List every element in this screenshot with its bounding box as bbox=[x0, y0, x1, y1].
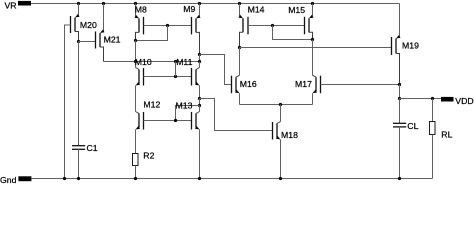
transistor M17 (NMOS, gate right) bbox=[295, 75, 321, 104]
node RL branch bbox=[431, 97, 434, 100]
node gnd-M13 bbox=[198, 177, 201, 180]
node M20 drain / M21 gate / C1 bbox=[77, 40, 80, 43]
wire M13 drain to M12/M13 gate tie bbox=[176, 106, 200, 121]
transistor M14 (PMOS, gate right) bbox=[239, 4, 265, 48]
svg-text:M11: M11 bbox=[176, 57, 192, 67]
svg-text:M19: M19 bbox=[402, 41, 419, 51]
wire M17 gate to output node bbox=[321, 84, 400, 86]
transistor M15 (PMOS, gate left) bbox=[288, 4, 313, 40]
svg-text:M12: M12 bbox=[143, 100, 160, 110]
wire M15 drain down to M17 drain bbox=[312, 40, 314, 76]
wire VR top rail bbox=[31, 3, 400, 5]
node M14-M15 gate tie bbox=[271, 24, 274, 27]
capacitor C1 bbox=[72, 42, 98, 179]
node bus-gate tie M10/M11 bbox=[174, 60, 177, 63]
svg-text:M10: M10 bbox=[135, 57, 152, 67]
svg-text:M9: M9 bbox=[183, 4, 195, 14]
node VDD output bbox=[398, 97, 401, 100]
node M15 drain diode tie bbox=[311, 38, 314, 41]
node bus-M11 bbox=[198, 60, 201, 63]
transistor M16 (NMOS, gate left) bbox=[232, 75, 257, 104]
svg-text:CL: CL bbox=[407, 121, 418, 131]
wire VDD node to pad bbox=[400, 98, 442, 100]
terminal VR pad bbox=[5, 0, 32, 10]
resistor R2 bbox=[133, 151, 155, 179]
transistor M8 (PMOS, gate right) bbox=[135, 4, 148, 41]
wire M20 gate to ground bbox=[65, 25, 71, 179]
svg-text:VDD: VDD bbox=[455, 96, 473, 106]
transistor M21 (PMOS, gate left) bbox=[96, 4, 121, 62]
wire M8/M9 gate tie bbox=[144, 25, 192, 27]
svg-text:M13: M13 bbox=[176, 101, 193, 111]
terminal Gnd pad bbox=[0, 175, 31, 185]
node M13 drain diode tie bbox=[198, 104, 201, 107]
node M10-M11 gate tie bbox=[174, 75, 177, 78]
node gnd-M18 bbox=[279, 177, 282, 180]
wire output to M18 gate bbox=[200, 99, 273, 131]
svg-text:M16: M16 bbox=[240, 79, 257, 89]
svg-text:M18: M18 bbox=[281, 130, 298, 140]
wire down to M13 drain tie bbox=[199, 99, 201, 106]
node gnd-CL bbox=[398, 177, 401, 180]
svg-text:M17: M17 bbox=[295, 79, 312, 89]
wire M16/M17 source bus bbox=[240, 104, 313, 106]
wire Gnd bottom rail bbox=[31, 178, 432, 180]
transistor M13 (NMOS, gate left) bbox=[176, 101, 200, 179]
wire gate tie to M15 drain bbox=[273, 26, 313, 40]
capacitor CL bbox=[393, 99, 419, 179]
svg-text:R2: R2 bbox=[143, 151, 154, 161]
node M8 drain bbox=[134, 39, 137, 42]
node gnd-C1 bbox=[77, 177, 80, 180]
resistor RL bbox=[430, 99, 453, 179]
terminal VDD pad bbox=[441, 96, 474, 106]
svg-text:RL: RL bbox=[441, 130, 452, 140]
svg-text:M14: M14 bbox=[248, 5, 265, 15]
wire gate tie down to M8 drain bbox=[136, 26, 168, 41]
svg-text:C1: C1 bbox=[87, 143, 98, 153]
svg-text:M20: M20 bbox=[80, 20, 97, 30]
wire gate tie up to drain bus bbox=[175, 62, 177, 77]
transistor M10 (NMOS, gate right) bbox=[135, 57, 152, 111]
wire M12/M13 gate tie bbox=[144, 120, 192, 122]
wire M14 drain to M19 gate bbox=[240, 47, 392, 49]
node rail-M15 bbox=[311, 2, 314, 5]
node M19 drain / M17 gate bbox=[398, 83, 401, 86]
svg-text:M21: M21 bbox=[104, 35, 121, 45]
node M14 drain / M19 gate bbox=[238, 46, 241, 49]
node M11 source / M13 drain output bbox=[198, 97, 201, 100]
node rail-M20 bbox=[77, 2, 80, 5]
node rail-M21 bbox=[102, 2, 105, 5]
node M9 drain branch to M16 gate bbox=[198, 53, 201, 56]
node rail-M9 bbox=[198, 2, 201, 5]
transistor M19 (PMOS, gate left) bbox=[392, 4, 420, 85]
node bus-M10 bbox=[134, 60, 137, 63]
wire M10/M11 gate tie bbox=[144, 76, 192, 78]
transistor M9 (PMOS, gate left) bbox=[183, 4, 200, 55]
wire M14/M15 gate tie bbox=[248, 25, 305, 27]
wire M8 drain down to bus bbox=[135, 41, 137, 62]
wire M20.drain to M21.gate bbox=[79, 41, 96, 43]
svg-text:Gnd: Gnd bbox=[0, 175, 17, 185]
svg-text:M15: M15 bbox=[288, 5, 305, 15]
node gnd-R2 bbox=[134, 177, 137, 180]
node M8-M9 gate tie bbox=[166, 24, 169, 27]
wire M19 drain down to VDD node bbox=[399, 85, 401, 99]
node source bus to M18 drain bbox=[279, 103, 282, 106]
node rail-M8 bbox=[134, 2, 137, 5]
wire M9 drain down to bus bbox=[199, 55, 201, 62]
node gnd-M20gate bbox=[63, 177, 66, 180]
wire M9 drain to M16 gate bbox=[200, 55, 232, 85]
node M12-M13 gate tie bbox=[174, 119, 177, 122]
wire M21 drain to drain bus bbox=[104, 61, 200, 63]
svg-text:M8: M8 bbox=[135, 4, 147, 14]
transistor M18 (NMOS, gate left) bbox=[273, 105, 299, 179]
svg-text:VR: VR bbox=[5, 0, 17, 10]
wire M14 drain down to M16 drain bbox=[239, 48, 241, 76]
transistor M12 (NMOS, gate right) bbox=[136, 100, 161, 154]
transistor M11 (NMOS, gate left) bbox=[176, 57, 199, 98]
transistor M20 (PMOS, gate left) bbox=[71, 4, 97, 42]
node rail-M14 bbox=[238, 2, 241, 5]
